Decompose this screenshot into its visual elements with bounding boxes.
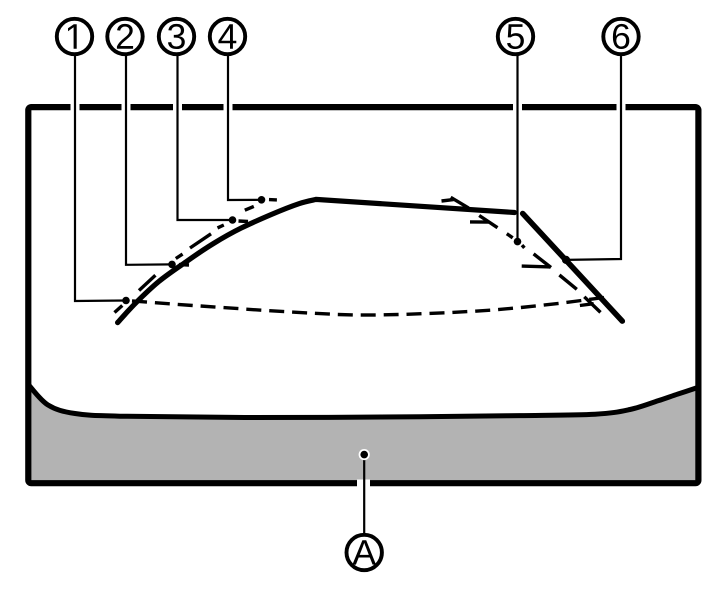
distance tick at dot 4 [269,198,277,202]
left predicted course dashed line [115,206,254,312]
dash r5 [534,254,551,268]
callout circle 5 [498,19,533,54]
dash r4 [522,245,524,248]
dot 2 [168,261,176,269]
border gap for leader 5 [513,104,522,112]
border gap for leader 2 [122,104,131,112]
distance tick at dot 3 [239,219,249,223]
dot 4 [258,196,266,204]
dot A [360,451,368,459]
distance tick at dot 2 [179,263,189,267]
border gap for leader 1 [71,104,80,112]
screen border frame [28,107,698,483]
dash r2 [479,216,497,228]
callout circle 3 [159,19,194,54]
dot A halo [359,449,370,460]
dash r7 [584,297,600,313]
leader line 4 [228,45,262,200]
arrow barb b1 [442,200,454,201]
leader line 1 [75,45,126,301]
dot 3 [229,216,237,224]
bottom distance dashed curve [132,298,604,316]
callout circle 1 [57,19,92,54]
leader line A [363,455,365,533]
bumper top edge line [28,385,698,418]
bumper gray area A [28,385,698,484]
vehicle width guide line left (solid curve) [118,199,515,322]
arrow barb b2 [470,220,489,224]
border gap for leader 4 [224,104,233,112]
border gap for leader 6 [617,104,626,112]
leader line 6 [566,45,621,260]
border gap for leader 3 [173,104,182,112]
border gap for leader A [357,480,370,488]
leader line 3 [178,45,233,220]
leader line 5 [516,45,518,242]
callout circle 2 [107,19,142,54]
vehicle width guide line right (solid) [523,214,623,322]
dash r6 [559,275,576,289]
callout circle A [347,535,382,570]
dot 5 [514,238,522,246]
dash r1 [451,197,469,208]
dash r3 [507,234,513,238]
dot 6 [562,256,570,264]
arrow barb b3 [522,264,551,268]
right predicted course dashed line: explicit dashes [442,197,601,312]
arrow barb b4 [580,304,594,306]
dot 1 [122,297,130,305]
callout circle 6 [603,19,638,54]
callout circle 4 [210,19,245,54]
leader line 2 [126,45,172,265]
